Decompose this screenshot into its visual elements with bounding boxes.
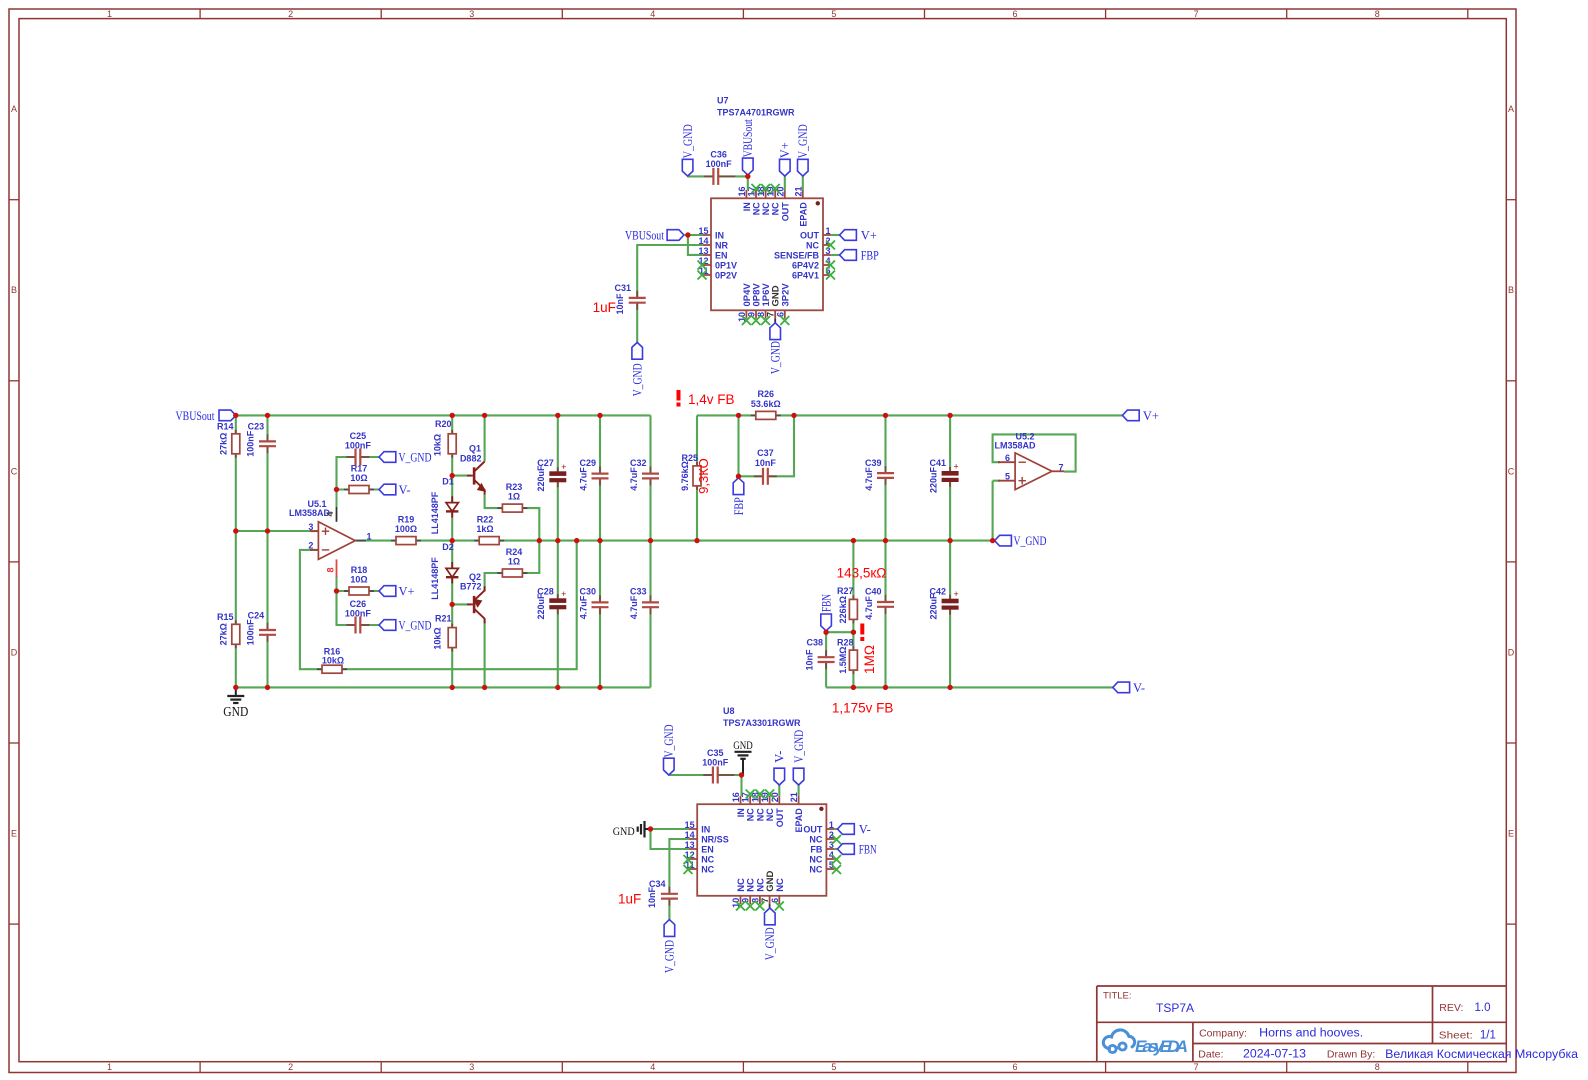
svg-text:1Ω: 1Ω (508, 492, 520, 502)
svg-text:C38: C38 (806, 638, 823, 648)
wire C36 net (688, 176, 748, 190)
svg-text:4.7uF: 4.7uF (864, 596, 874, 620)
svg-text:V-: V- (859, 823, 871, 837)
resistor R28 (837, 638, 857, 675)
svg-text:Drawn By:: Drawn By: (1327, 1049, 1375, 1061)
net flag V_GND U8 epad (792, 730, 806, 785)
resistor R23 (497, 482, 527, 512)
svg-text:+: + (561, 589, 566, 599)
capacitor C38 (804, 638, 834, 671)
svg-text:10Ω: 10Ω (350, 473, 367, 483)
svg-text:8: 8 (1375, 9, 1380, 19)
svg-text:Q2: Q2 (469, 572, 481, 582)
wire V+ top rail (697, 414, 1122, 416)
svg-text:Q1: Q1 (469, 444, 481, 454)
svg-text:REV:: REV: (1439, 1002, 1463, 1014)
svg-text:1.5MΩ: 1.5MΩ (838, 646, 848, 673)
diode D1 (430, 476, 459, 534)
svg-text:10kΩ: 10kΩ (433, 627, 443, 649)
capacitor C36 (704, 150, 736, 185)
net flag V_GND mid (995, 534, 1047, 548)
svg-text:7: 7 (1059, 463, 1064, 473)
value 1uF red at C34 (618, 892, 641, 907)
svg-text:226kΩ: 226kΩ (838, 596, 848, 623)
svg-text:R28: R28 (837, 638, 854, 648)
wire C29-C30 column (599, 415, 601, 687)
capacitor C39 (864, 458, 894, 491)
wire U7 pin3 to FBP (831, 254, 839, 256)
net flag V+ at R18 (379, 585, 415, 599)
IC U8 TPS7A3301RGWR (684, 706, 842, 911)
svg-text:R19: R19 (398, 514, 415, 524)
svg-text:C37: C37 (757, 448, 774, 458)
svg-text:NR/SS: NR/SS (701, 834, 729, 844)
wire V_GND to pin21 (802, 176, 804, 190)
svg-text:10nF: 10nF (615, 293, 625, 315)
svg-text:100nF: 100nF (345, 440, 372, 450)
svg-text:5: 5 (831, 9, 836, 19)
capacitor C32 (629, 458, 659, 491)
svg-text:4.7uF: 4.7uF (629, 467, 639, 491)
capacitor C42 (929, 587, 959, 620)
svg-text:NC: NC (809, 864, 822, 874)
svg-text:V_GND: V_GND (399, 451, 432, 465)
svg-text:1uF: 1uF (593, 300, 616, 315)
IC U7 TPS7A4701RGWR (698, 96, 836, 326)
svg-text:GND: GND (733, 740, 753, 752)
svg-text:OUT: OUT (800, 230, 820, 240)
svg-text:IN: IN (701, 824, 710, 834)
wire C25 branch (337, 457, 380, 490)
svg-text:NC: NC (701, 854, 714, 864)
svg-text:IN: IN (736, 808, 746, 817)
svg-text:143,5кΩ: 143,5кΩ (837, 566, 887, 581)
wire VBUSout to pin15 (684, 234, 703, 236)
wire Q1 emitter to R23 (485, 494, 540, 541)
wire R25 column (696, 415, 698, 540)
svg-text:D: D (1508, 647, 1515, 657)
svg-text:V-: V- (773, 751, 787, 763)
net flag FBN U8 right (838, 843, 877, 857)
transistor Q2 (460, 572, 485, 624)
svg-text:3: 3 (469, 9, 474, 19)
svg-text:+: + (561, 462, 566, 472)
value 1,175v FB red (832, 700, 894, 715)
svg-text:Horns and hooves.: Horns and hooves. (1259, 1028, 1363, 1040)
wire R18 branch (337, 590, 380, 592)
wire C27-C28 column (557, 415, 559, 687)
capacitor C29 (579, 458, 609, 491)
svg-text:2: 2 (308, 541, 313, 551)
svg-text:9,3КО: 9,3КО (696, 458, 711, 494)
svg-text:C31: C31 (614, 283, 631, 293)
svg-text:2024-07-13: 2024-07-13 (1243, 1049, 1306, 1061)
net flag V- at R17 (379, 483, 411, 497)
svg-text:4: 4 (650, 1062, 655, 1072)
resistor R20 (433, 419, 457, 458)
net flag V_GND U7 pin7 (769, 323, 783, 374)
svg-text:LL4148PF: LL4148PF (430, 491, 440, 534)
net flag V- U8 right (838, 823, 871, 837)
wire VBUSout to pin13 (688, 235, 703, 255)
wire U5.2 feedback loop (993, 434, 1076, 471)
svg-text:1МΩ: 1МΩ (862, 645, 877, 674)
capacitor C33 (629, 587, 659, 620)
svg-text:5: 5 (1005, 472, 1010, 482)
net flag V+ U7 right (840, 229, 877, 243)
net flag V- bottom (1113, 681, 1145, 695)
svg-text:1/1: 1/1 (1480, 1030, 1496, 1042)
svg-text:TPS7A3301RGWR: TPS7A3301RGWR (723, 718, 801, 728)
svg-text:C26: C26 (350, 599, 367, 609)
svg-text:NC: NC (806, 240, 819, 250)
wire opamp pin8 stub (336, 576, 338, 591)
svg-text:NC: NC (771, 202, 781, 215)
resistor R15 (217, 612, 240, 648)
wire Q2 base (452, 603, 471, 605)
svg-text:NC: NC (809, 854, 822, 864)
wire V+ to pin20 (784, 176, 786, 190)
svg-text:EPAD: EPAD (798, 202, 808, 227)
svg-text:TITLE:: TITLE: (1103, 991, 1132, 1002)
value 1MOhm red (862, 645, 877, 674)
resistor R17 (344, 463, 374, 493)
svg-text:7: 7 (1194, 1062, 1199, 1072)
svg-text:V_GND: V_GND (1014, 534, 1047, 548)
svg-text:EasyEDA: EasyEDA (1135, 1037, 1188, 1056)
svg-text:C: C (1508, 466, 1515, 476)
capacitor C37 (754, 448, 777, 485)
net flag V_GND at C25 (379, 451, 432, 465)
svg-text:8: 8 (1375, 1062, 1380, 1072)
svg-text:6: 6 (1012, 1062, 1017, 1072)
svg-text:10Ω: 10Ω (350, 574, 367, 584)
svg-text:1: 1 (829, 820, 834, 830)
svg-text:7: 7 (760, 898, 770, 903)
resistor R14 (217, 422, 240, 458)
svg-text:V_GND: V_GND (631, 363, 645, 396)
svg-text:9.76kΩ: 9.76kΩ (680, 461, 690, 491)
svg-text:1Ω: 1Ω (508, 556, 520, 566)
svg-text:V+: V+ (778, 142, 792, 158)
svg-text:D: D (11, 647, 18, 657)
svg-text:R23: R23 (506, 482, 523, 492)
svg-text:V_GND: V_GND (769, 341, 783, 374)
capacitor C26 (345, 599, 372, 634)
svg-text:53.6kΩ: 53.6kΩ (751, 399, 781, 409)
svg-text:R22: R22 (477, 514, 494, 524)
svg-text:10nF: 10nF (804, 649, 814, 671)
svg-text:C30: C30 (579, 587, 596, 597)
svg-text:5: 5 (831, 1062, 836, 1072)
svg-text:GND: GND (613, 826, 635, 838)
wire opamp pin4 stub (336, 490, 338, 522)
svg-text:220uF: 220uF (929, 593, 939, 620)
ground GND main (223, 687, 248, 719)
wire Q1 collector (484, 415, 486, 461)
svg-text:4.7uF: 4.7uF (864, 467, 874, 491)
svg-text:R18: R18 (351, 565, 368, 575)
svg-text:VBUSout: VBUSout (176, 409, 215, 423)
wire Q2 collector (484, 620, 486, 688)
net flag V_GND at C31 (631, 342, 645, 396)
svg-text:1: 1 (107, 9, 112, 19)
net flag V_GND U7 topleft (681, 124, 695, 176)
wire C39-C40 column (884, 415, 886, 687)
wire R17 branch (337, 488, 380, 490)
svg-text:A: A (1508, 104, 1514, 114)
svg-text:220uF: 220uF (536, 465, 546, 492)
net flag V_GND U8 topleft (662, 725, 676, 776)
svg-text:1: 1 (367, 532, 372, 542)
EasyEDA logo (1103, 1030, 1188, 1056)
svg-text:4.7uF: 4.7uF (629, 595, 639, 619)
svg-text:V_GND: V_GND (792, 730, 806, 763)
ground GND at C35 (733, 740, 753, 775)
svg-text:V+: V+ (861, 229, 877, 243)
net flag V+ U7 top (778, 142, 792, 176)
capacitor C24 (245, 611, 276, 646)
svg-text:V_GND: V_GND (399, 619, 432, 633)
warning mark at R28 (860, 624, 864, 642)
svg-text:GND: GND (223, 704, 248, 719)
svg-text:FBP: FBP (861, 249, 879, 263)
wire U5.2 pin5 to V_GND (993, 481, 1000, 541)
svg-text:C: C (11, 466, 18, 476)
capacitor C25 (345, 431, 372, 466)
svg-text:V+: V+ (1143, 409, 1159, 423)
svg-text:220uF: 220uF (929, 466, 939, 493)
svg-text:TPS7A4701RGWR: TPS7A4701RGWR (717, 108, 795, 118)
svg-text:0P1V: 0P1V (715, 260, 737, 270)
svg-text:R14: R14 (217, 422, 234, 432)
wire Q2 emitter to R24 (485, 541, 540, 592)
diode D2 (430, 542, 459, 600)
svg-text:TSP7A: TSP7A (1156, 1001, 1194, 1015)
wire C38 column (825, 632, 827, 687)
net flag FBP U7 right (840, 249, 879, 263)
svg-text:OUT: OUT (803, 824, 823, 834)
svg-text:C41: C41 (929, 458, 946, 468)
svg-text:V_GND: V_GND (681, 124, 695, 158)
svg-text:6P4V1: 6P4V1 (792, 270, 819, 280)
net flag VBUSout U7 top (741, 119, 755, 175)
svg-text:R21: R21 (435, 613, 452, 623)
svg-text:LL4148PF: LL4148PF (430, 557, 440, 600)
wire U7 pin1 to V+ (831, 234, 839, 236)
svg-text:C25: C25 (350, 431, 367, 441)
svg-text:C39: C39 (865, 458, 882, 468)
svg-text:27kΩ: 27kΩ (219, 433, 229, 455)
svg-text:220uF: 220uF (536, 593, 546, 620)
wire FBN node (826, 631, 853, 633)
svg-text:27kΩ: 27kΩ (219, 623, 229, 645)
resistor R26 (751, 389, 781, 419)
svg-text:IN: IN (742, 202, 752, 211)
svg-text:4: 4 (325, 511, 335, 516)
svg-text:V_GND: V_GND (796, 124, 810, 158)
resistor R24 (497, 547, 527, 577)
svg-text:B: B (1508, 285, 1514, 295)
svg-text:C33: C33 (630, 587, 647, 597)
wire C32-C33 column (649, 415, 651, 687)
wire Q1 base (452, 475, 471, 477)
svg-text:V+: V+ (399, 585, 415, 599)
op-amp U5.1 (289, 499, 372, 577)
svg-text:V-: V- (399, 483, 411, 497)
svg-text:6: 6 (1005, 453, 1010, 463)
net flag VBUSout main (176, 409, 236, 423)
wire C26 branch (337, 591, 380, 625)
svg-text:R26: R26 (758, 389, 775, 399)
svg-text:FBN: FBN (859, 843, 877, 857)
svg-text:10nF: 10nF (647, 886, 657, 908)
wire R27-R28 column (852, 541, 854, 688)
wire R14-R15 column (235, 415, 237, 687)
svg-text:NR: NR (715, 240, 728, 250)
svg-text:8: 8 (326, 567, 336, 572)
svg-text:R15: R15 (217, 612, 234, 622)
wire GND to U8 pin15 (651, 828, 689, 830)
svg-text:2: 2 (288, 9, 293, 19)
svg-text:100nF: 100nF (245, 430, 255, 457)
svg-text:4: 4 (650, 9, 655, 19)
svg-text:16: 16 (737, 186, 747, 196)
svg-text:1uF: 1uF (618, 892, 641, 907)
wire opamp pin2 feedback (300, 541, 577, 670)
svg-text:100nF: 100nF (706, 159, 733, 169)
resistor R27 (837, 586, 857, 623)
svg-text:NC: NC (761, 202, 771, 215)
capacitor C35 (702, 748, 734, 784)
value 9,3KO red (696, 458, 711, 494)
svg-text:1,175v FB: 1,175v FB (832, 700, 894, 715)
svg-text:C29: C29 (579, 458, 596, 468)
svg-text:OUT: OUT (780, 202, 790, 222)
wire GND bottom-left rail (236, 686, 651, 688)
svg-text:3: 3 (308, 522, 313, 532)
net flag FBP (732, 478, 746, 516)
svg-text:NC: NC (701, 864, 714, 874)
wire U8 pin21 to V_GND (798, 785, 800, 796)
net flag V_GND U8 pin7 (763, 908, 777, 960)
wire GND to U8 pin13 (651, 829, 689, 849)
net flag VBUSout U7 left (625, 229, 684, 243)
svg-text:1: 1 (107, 1062, 112, 1072)
resistor R21 (433, 613, 457, 651)
svg-text:100Ω: 100Ω (395, 524, 417, 534)
svg-text:1kΩ: 1kΩ (476, 524, 493, 534)
svg-text:E: E (11, 829, 17, 839)
transistor Q1 (460, 444, 485, 495)
svg-text:V_GND: V_GND (763, 927, 777, 960)
svg-text:NC: NC (809, 834, 822, 844)
wire C31 to pin14 (637, 245, 703, 342)
svg-text:NC: NC (775, 878, 786, 892)
svg-text:U8: U8 (723, 706, 735, 716)
wire R20-D1-D2-R21 column (451, 415, 453, 687)
wire C35 net (669, 775, 742, 796)
value 143,5kOhm red (837, 566, 887, 581)
svg-text:A: A (11, 104, 17, 114)
svg-text:C24: C24 (248, 611, 265, 621)
wire U8 pin3 to FBN (835, 848, 838, 850)
svg-text:0P2V: 0P2V (715, 270, 737, 280)
svg-text:10nF: 10nF (755, 458, 777, 468)
wire U8 pin1 to V- (835, 828, 838, 830)
resistor R16 (317, 647, 347, 674)
svg-text:R17: R17 (351, 463, 368, 473)
capacitor C27 (536, 458, 567, 492)
net flag V+ top (1122, 409, 1159, 423)
svg-text:Date:: Date: (1198, 1049, 1223, 1061)
svg-text:OUT: OUT (775, 808, 785, 828)
svg-text:NC: NC (755, 808, 765, 821)
svg-text:100nF: 100nF (345, 608, 372, 618)
wire C37 loop (739, 415, 795, 476)
capacitor C40 (864, 587, 894, 620)
capacitor C23 (245, 422, 276, 457)
svg-text:4.7uF: 4.7uF (579, 595, 589, 619)
svg-text:R27: R27 (837, 586, 854, 596)
svg-text:Company:: Company: (1199, 1028, 1247, 1040)
svg-text:C40: C40 (865, 587, 882, 597)
svg-text:1.0: 1.0 (1475, 1002, 1491, 1014)
svg-text:LM358AD: LM358AD (994, 440, 1036, 450)
svg-text:EN: EN (701, 844, 714, 854)
wire VBUSout top rail (236, 414, 651, 416)
svg-text:Великая Космическая Мясорубка: Великая Космическая Мясорубка (1385, 1049, 1579, 1061)
capacitor C41 (929, 458, 959, 493)
net flag V- U8 top (773, 751, 787, 785)
svg-text:IN: IN (715, 230, 724, 240)
warning 1,4v FB (677, 390, 735, 407)
svg-text:FB: FB (810, 844, 822, 854)
title block (1097, 986, 1579, 1062)
capacitor C31 (614, 283, 645, 315)
op-amp U5.2 (994, 432, 1064, 490)
svg-text:D2: D2 (442, 542, 454, 552)
wire opamp pin3 input (236, 530, 319, 532)
svg-text:+: + (953, 589, 958, 599)
svg-text:EN: EN (715, 250, 728, 260)
capacitor C30 (579, 587, 609, 620)
resistor R19 (391, 514, 421, 544)
net flag V_GND at C34 (663, 920, 677, 973)
wire U8 pin20 to V- (778, 785, 780, 796)
svg-text:R20: R20 (435, 419, 452, 429)
svg-text:VBUSout: VBUSout (741, 119, 755, 157)
wire U8 pin14 to C34 (669, 839, 689, 920)
wire C41-C42 column (949, 415, 951, 687)
svg-text:C32: C32 (630, 458, 647, 468)
svg-text:V_GND: V_GND (662, 725, 676, 758)
svg-text:C35: C35 (707, 748, 724, 758)
svg-text:6: 6 (1012, 9, 1017, 19)
svg-text:1: 1 (826, 226, 831, 236)
svg-text:4.7uF: 4.7uF (579, 467, 589, 491)
svg-text:16: 16 (731, 792, 741, 802)
svg-text:U7: U7 (717, 96, 729, 106)
svg-text:C23: C23 (248, 422, 265, 432)
svg-text:FBN: FBN (819, 594, 833, 612)
svg-text:D882: D882 (460, 453, 482, 463)
svg-text:100nF: 100nF (245, 619, 255, 646)
resistor R22 (474, 514, 504, 544)
resistor R18 (344, 565, 374, 595)
wire U8 pin7 gnd (769, 904, 771, 908)
svg-text:NC: NC (746, 808, 756, 821)
